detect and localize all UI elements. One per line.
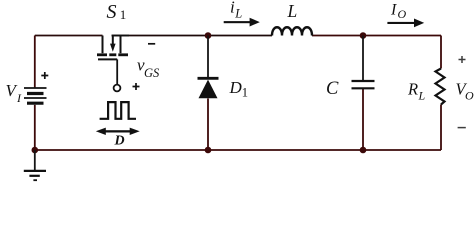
svg-text:D: D [114,134,125,149]
svg-text:O: O [465,89,474,103]
svg-text:C: C [326,79,339,99]
svg-text:R: R [407,80,418,99]
svg-text:L: L [418,89,426,103]
svg-text:1: 1 [242,85,248,99]
svg-text:GS: GS [144,66,160,80]
svg-text:I: I [16,91,22,105]
svg-text:I: I [390,2,397,19]
svg-text:S: S [107,1,117,23]
svg-text:L: L [287,1,298,21]
svg-text:D: D [229,78,243,97]
svg-text:1: 1 [120,7,127,22]
svg-text:L: L [234,6,242,20]
svg-text:O: O [398,7,407,21]
